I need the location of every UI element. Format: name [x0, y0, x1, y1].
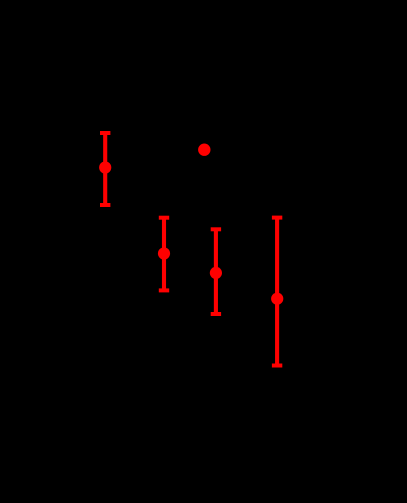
error bar 1 bottom cap — [100, 203, 110, 207]
error bar 1 top cap — [100, 131, 110, 135]
marker 3 — [158, 247, 170, 259]
wire: error bar 1 vertical line — [103, 133, 107, 205]
errorbar series point 3 — [158, 218, 170, 291]
marker 4 — [210, 267, 222, 279]
error bar 5 bottom cap — [272, 364, 282, 368]
error bar 5 top cap — [272, 216, 282, 220]
errorbar series point 2 (marker only) — [198, 144, 210, 156]
error bar 4 top cap — [211, 227, 221, 231]
wire: error bar 5 vertical line — [275, 218, 279, 366]
marker 2 — [198, 144, 210, 156]
error bar 3 top cap — [159, 216, 169, 220]
wire: error bar 3 vertical line — [162, 218, 166, 291]
errorbar series point 4 — [210, 229, 222, 314]
marker 5 — [271, 293, 283, 305]
errorbar series point 5 — [271, 218, 283, 366]
marker 1 — [99, 161, 111, 173]
wire: error bar 4 vertical line — [214, 229, 218, 314]
errorbar series point 1 — [99, 133, 111, 205]
error bar 4 bottom cap — [211, 312, 221, 316]
error bar 3 bottom cap — [159, 288, 169, 292]
